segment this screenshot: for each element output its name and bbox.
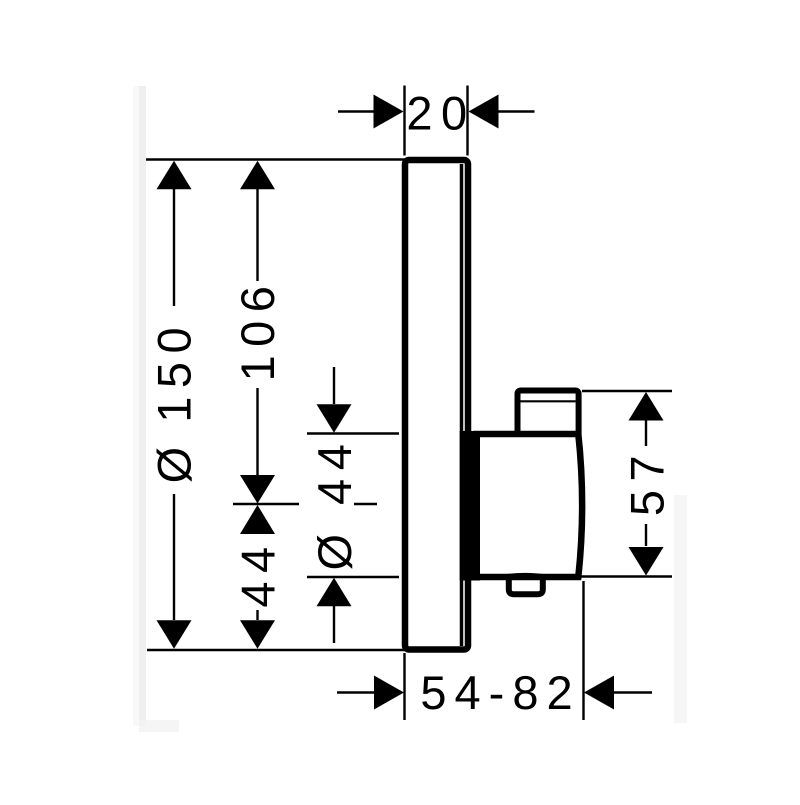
dim 150 [148, 161, 201, 649]
button inner line [521, 400, 576, 402]
centerline dash [354, 503, 377, 505]
tick at centerline [233, 503, 299, 505]
svg-text:20: 20 [406, 87, 475, 140]
dim 54-82 [337, 581, 652, 720]
svg-text:106: 106 [231, 278, 284, 382]
dim 57 [580, 391, 674, 577]
plate outline [405, 160, 468, 650]
dim 44 (left) [232, 505, 285, 649]
dim diameter 44 [307, 367, 399, 643]
svg-text:Ø: Ø [308, 525, 361, 570]
svg-text:44: 44 [232, 538, 285, 607]
tab [509, 578, 543, 594]
knob body [477, 434, 583, 577]
dim 106 [231, 161, 284, 504]
knob bottom bump [502, 575, 548, 577]
plate inner right line [460, 164, 464, 646]
svg-text:54-82: 54-82 [420, 666, 580, 719]
top reference line [146, 158, 405, 161]
svg-text:150: 150 [148, 319, 201, 423]
button [518, 391, 579, 435]
knob body junction fill [460, 431, 480, 581]
svg-text:44: 44 [308, 436, 361, 505]
dim 20 [338, 86, 535, 156]
svg-text:Ø: Ø [148, 438, 201, 483]
bottom reference line [147, 649, 405, 652]
svg-text:57: 57 [621, 447, 674, 516]
